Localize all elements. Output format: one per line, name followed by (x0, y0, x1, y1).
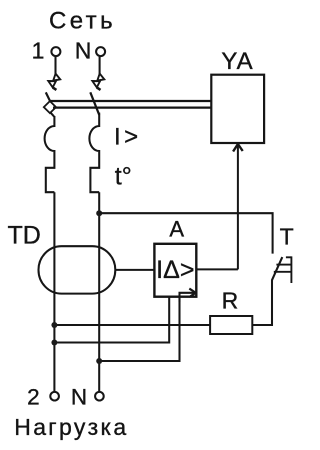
svg-text:2: 2 (27, 385, 40, 410)
svg-text:R: R (222, 287, 239, 313)
terminal circle N bottom (95, 392, 104, 401)
solenoid YA box (211, 75, 264, 143)
wire left wire to R (54, 324, 210, 326)
breaker blade pole N (90, 92, 99, 115)
right wire main vertical (98, 192, 100, 391)
amplifier A box (154, 244, 196, 297)
svg-text:A: A (169, 216, 184, 241)
T button lower lead (252, 280, 272, 325)
breaker blade pole 1 (46, 92, 50, 101)
node: left wire to R (51, 322, 57, 328)
mechanical linkage bus line 1 (51, 100, 212, 102)
svg-text:Сеть: Сеть (49, 8, 116, 35)
node: right wire to A input (96, 358, 102, 364)
svg-text:N: N (75, 38, 92, 64)
wire right wire to A input (99, 297, 179, 361)
svg-text:TD: TD (8, 222, 41, 250)
TD secondary lead to A (115, 269, 154, 271)
wire from terminal 1 down (54, 56, 56, 74)
svg-text:T: T (280, 224, 294, 250)
link from latch to wire (51, 113, 55, 117)
electromagnetic release coil pole N (89, 113, 99, 193)
test button T blade (272, 257, 282, 280)
svg-text:1: 1 (32, 38, 45, 64)
trip arrow into YA (237, 144, 239, 269)
mechanical linkage bus line 2 (53, 106, 211, 108)
terminal circle N top (96, 47, 105, 56)
differential transformer TD oval (39, 246, 116, 293)
electromagnetic release coil pole 1 (45, 116, 55, 192)
svg-text:Нагрузка: Нагрузка (14, 414, 128, 440)
svg-text:I>: I> (114, 123, 142, 150)
test button T actuator (274, 256, 292, 283)
svg-text:N: N (71, 385, 87, 410)
release arrow (free-trip symbol) pole 1 (48, 74, 60, 90)
resistor R box (210, 316, 252, 334)
breaker latch square pole 1 (44, 101, 56, 113)
terminal circle 2 (50, 392, 59, 401)
release arrow (free-trip symbol) pole N (92, 74, 104, 90)
svg-text:t°: t° (115, 163, 132, 191)
wire left wire to A input (54, 297, 169, 343)
terminal circle 1 (51, 47, 60, 56)
svg-text:YA: YA (221, 48, 253, 75)
A box right output lead (196, 268, 238, 270)
node: left wire to A input (51, 340, 57, 346)
left wire main vertical (53, 192, 55, 391)
wire from terminal N down (99, 57, 101, 74)
A box internal output arrow (180, 293, 195, 302)
node: right wire to T button line (96, 210, 102, 216)
wire N to T button (99, 213, 272, 253)
svg-text:IΔ>: IΔ> (156, 256, 194, 284)
